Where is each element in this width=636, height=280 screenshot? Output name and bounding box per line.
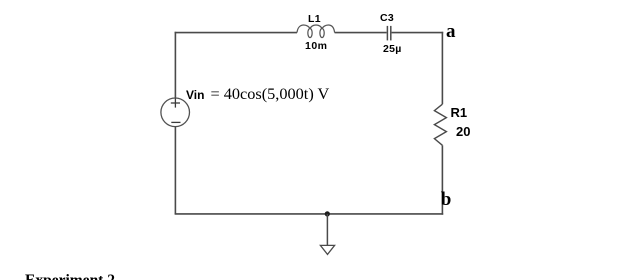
wire: left vertical upper (corner to source) [174, 32, 176, 98]
value 10m [305, 40, 328, 52]
junction node dot [325, 211, 330, 216]
label C3 [380, 12, 394, 24]
value 25&#181; [383, 43, 402, 55]
capacitor C3 right plate [390, 26, 392, 41]
wire: left vertical lower (source to corner) [174, 127, 176, 214]
voltage source plus sign [171, 98, 180, 107]
wire: ground stem [326, 214, 328, 245]
node a [446, 21, 456, 43]
wire: right vertical upper (corner to resistor) [441, 32, 443, 104]
wire: right vertical lower (resistor to corner) [441, 145, 443, 214]
wire: top rail between inductor and capacitor [335, 32, 387, 34]
ground symbol triangle [320, 245, 334, 254]
wire: bottom rail [175, 213, 444, 215]
wire: top rail left segment (corner to inductor) [175, 32, 297, 34]
node b [441, 189, 452, 211]
caption Experiment 2 (cut off at bottom) [25, 272, 115, 280]
voltage source Vin circle [161, 98, 190, 127]
label L1 [308, 13, 321, 25]
label R1 [451, 105, 468, 120]
source equation [211, 84, 330, 104]
value 20 [456, 124, 470, 139]
voltage source minus sign [171, 121, 180, 123]
resistor R1 zigzag [434, 104, 446, 145]
wire: top rail right segment (capacitor to corner) [392, 32, 444, 34]
capacitor C3 left plate [386, 26, 388, 41]
label Vin [186, 88, 204, 102]
inductor L1 [297, 25, 335, 38]
